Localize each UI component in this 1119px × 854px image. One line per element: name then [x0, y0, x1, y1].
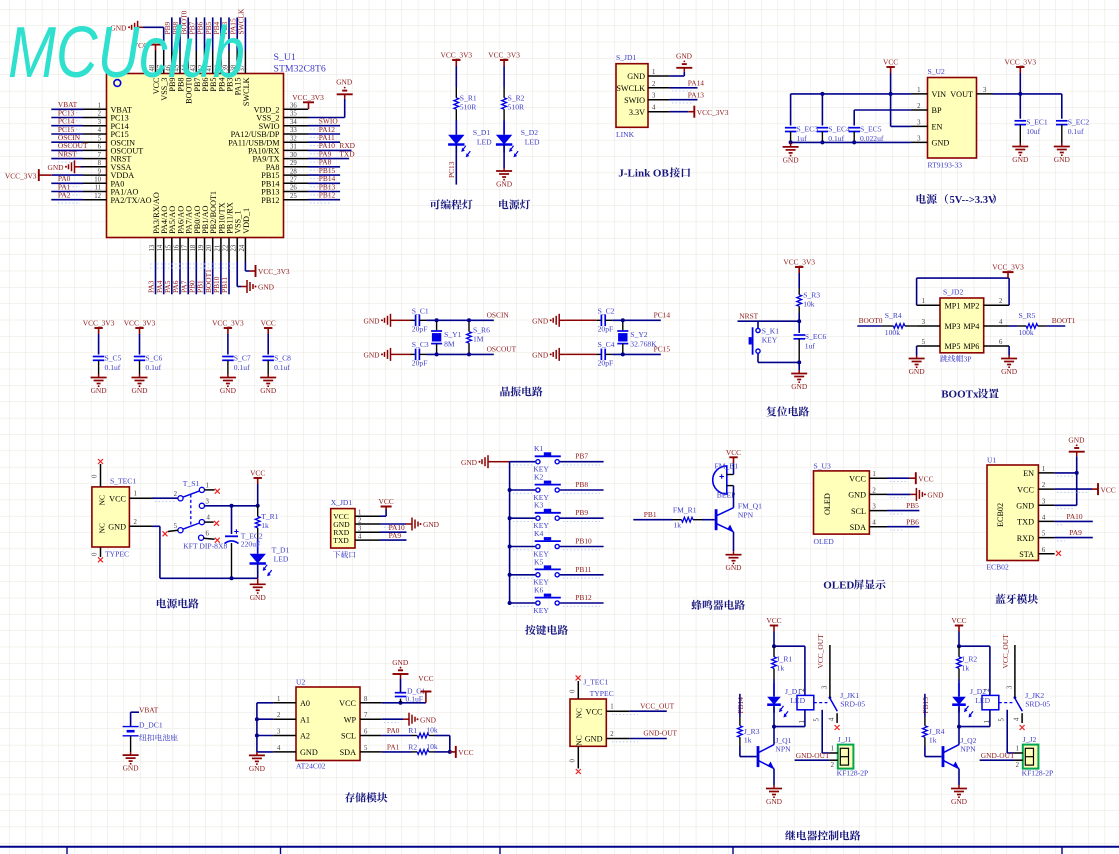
svg-text:S_C1: S_C1	[412, 307, 429, 316]
svg-text:29: 29	[290, 160, 297, 167]
ground at pin35 VSS_2	[308, 117, 345, 119]
wire net BOOT0	[187, 17, 189, 50]
ground below J_Q2	[958, 785, 960, 789]
crystal S_Y2 32.768K	[622, 320, 624, 331]
key K6 KEY	[536, 601, 540, 605]
pin 39 PB3 (top)	[228, 51, 230, 74]
junction VCC/pin3	[256, 504, 260, 508]
resistor J_R3 1k	[739, 717, 741, 726]
capacitor D_C1 0.1uF	[400, 699, 402, 703]
pin 1 A0 of U2	[273, 702, 296, 704]
wire net PA6	[179, 262, 181, 295]
pin 30 PA9/TX (right)	[284, 158, 309, 160]
wire rail to K6	[510, 602, 536, 604]
relay J_JK1 SRD-05 coil	[797, 695, 814, 709]
svg-text:GND: GND	[1068, 436, 1085, 445]
pin 3 GND of U1	[1038, 504, 1054, 506]
svg-text:1: 1	[358, 510, 361, 517]
wire net OSCOUT	[51, 149, 83, 151]
svg-text:TXD: TXD	[333, 536, 349, 545]
wire net PA9	[308, 158, 349, 160]
svg-text:S_R3: S_R3	[803, 290, 820, 299]
junction rail K6	[508, 601, 512, 605]
svg-text:35: 35	[290, 111, 297, 118]
svg-text:A2: A2	[300, 732, 310, 741]
pin 3 SWIO of S_JD1	[648, 99, 669, 101]
svg-text:VCC: VCC	[261, 319, 276, 328]
svg-text:SDA: SDA	[340, 748, 356, 757]
svg-text:27: 27	[290, 177, 297, 184]
wire down to S_R3	[798, 273, 800, 288]
svg-text:VCC_3V3: VCC_3V3	[1004, 58, 1036, 67]
pin 1 MP1 of S_JD2	[917, 304, 940, 306]
svg-text:KEY: KEY	[762, 336, 778, 345]
svg-text:3: 3	[922, 319, 926, 326]
svg-text:21: 21	[214, 245, 221, 252]
svg-text:GND: GND	[909, 367, 926, 376]
svg-text:PA2/TX/AO: PA2/TX/AO	[111, 196, 152, 205]
pin 4 SDA of S_U3	[869, 526, 887, 528]
capacitor S_EC3 1uf	[785, 127, 797, 129]
svg-text:1: 1	[922, 298, 925, 305]
wire net PB1	[633, 519, 672, 521]
wire SCL / net PA0	[382, 735, 412, 737]
pin 1 VCC of X_JD1	[355, 515, 380, 517]
pin 33 PA12/USB/DP (right)	[284, 133, 309, 135]
svg-text:5: 5	[364, 745, 368, 752]
power VCC above S_C8	[267, 328, 269, 334]
svg-text:1: 1	[206, 482, 209, 489]
key K3 KEY	[536, 516, 540, 520]
svg-text:4: 4	[872, 520, 876, 527]
ground below left rail	[256, 752, 258, 756]
ground below J_Q1	[773, 785, 775, 789]
svg-text:VCC_3V3: VCC_3V3	[5, 171, 37, 180]
svg-text:2: 2	[358, 517, 362, 524]
svg-text:17: 17	[182, 244, 189, 251]
wire VCC down to VIN rail	[890, 73, 892, 94]
svg-text:4: 4	[207, 515, 211, 522]
connector J_TEC1 TYPEC body	[570, 699, 606, 746]
svg-text:0: 0	[92, 552, 99, 556]
junction node NRST	[797, 319, 801, 323]
wire coil pin1 to node	[804, 710, 806, 727]
ground below S_C5	[98, 374, 100, 378]
svg-text:GND: GND	[108, 523, 126, 532]
svg-text:J_R2: J_R2	[962, 654, 978, 663]
sheet bottom border	[0, 846, 1119, 848]
LED J_D1	[773, 679, 775, 696]
relay pin4	[836, 713, 838, 723]
wire net PB9	[171, 17, 173, 50]
svg-text:U1: U1	[987, 455, 996, 464]
relay J_JK2 contact pin3	[1014, 645, 1016, 697]
svg-text:SWCLK: SWCLK	[616, 84, 645, 93]
svg-text:GND: GND	[927, 491, 944, 500]
wire FM_R1 to base	[702, 519, 715, 521]
pin 8 VCC of U2	[360, 702, 382, 704]
svg-text:FM_R1: FM_R1	[673, 506, 697, 515]
svg-text:20pF: 20pF	[412, 324, 428, 333]
pin 3 VOUT of S_U2	[977, 93, 994, 95]
svg-text:28: 28	[290, 168, 297, 175]
svg-text:OLED: OLED	[823, 493, 832, 515]
svg-text:GND: GND	[725, 563, 742, 572]
pin 3 EN of S_U2	[911, 125, 928, 127]
wire BP to S_EC5	[854, 109, 911, 111]
wire S_R3 to node	[798, 313, 800, 321]
svg-text:2: 2	[277, 712, 281, 719]
svg-text:LED: LED	[477, 137, 492, 146]
pin 29 PA8 (right)	[284, 166, 309, 168]
resistor R2 10k	[412, 751, 418, 753]
svg-text:1: 1	[134, 491, 137, 498]
svg-text:SRD-05: SRD-05	[1025, 699, 1050, 708]
no-ERC bottom	[98, 557, 103, 562]
svg-text:PA9: PA9	[1069, 528, 1082, 537]
svg-text:VCC_3V3: VCC_3V3	[83, 319, 115, 328]
wire net PA2	[51, 199, 83, 201]
svg-text:PB8: PB8	[575, 480, 588, 489]
svg-text:7: 7	[364, 712, 368, 719]
svg-text:1: 1	[984, 720, 991, 723]
pin 16 PA6/AO (bottom)	[179, 238, 181, 262]
display S_U3 OLED body	[814, 471, 870, 534]
resistor S_R2 510R	[503, 87, 505, 98]
wire net PC13	[51, 117, 83, 119]
svg-text:2: 2	[1016, 762, 1020, 769]
terminal J_J2 KF128-2P body	[1023, 745, 1039, 769]
pin 48 VCC (top)	[155, 51, 157, 74]
svg-text:PB6: PB6	[906, 517, 919, 526]
junction dots gnd rail	[789, 140, 793, 144]
wire bottom PC15	[612, 353, 661, 355]
capacitor S_EC5 0.022uf	[849, 127, 861, 129]
svg-text:R1: R1	[408, 726, 417, 735]
svg-text:KFT DIP-8X8: KFT DIP-8X8	[183, 542, 227, 551]
svg-text:5: 5	[922, 339, 926, 346]
svg-text:26: 26	[290, 185, 297, 192]
svg-text:3P: 3P	[964, 355, 972, 364]
svg-text:GND: GND	[258, 283, 275, 292]
svg-text:3: 3	[277, 729, 281, 736]
svg-text:4: 4	[652, 105, 656, 112]
ground below S_EC2	[1061, 143, 1063, 147]
power VCC right of D_C1	[425, 692, 427, 703]
wire K6 to PB12	[560, 602, 604, 604]
ground below S_C8	[267, 374, 269, 378]
wire LED to collector node	[773, 707, 775, 727]
svg-text:OSCOUT: OSCOUT	[487, 344, 517, 353]
svg-text:BP: BP	[932, 106, 942, 115]
pin 2 GND of S_U3	[869, 493, 887, 495]
svg-text:4: 4	[999, 319, 1003, 326]
wire rail to K4	[510, 546, 536, 548]
wire GND pin to rail	[152, 525, 160, 527]
wire net PA10	[308, 149, 352, 151]
transistor J_Q2 NPN	[942, 746, 945, 767]
wire net PB13	[308, 191, 340, 193]
svg-text:0: 0	[92, 474, 99, 478]
pin 13 PA3/RX/AO (bottom)	[155, 238, 157, 262]
pin 19 PB1/AO (bottom)	[204, 238, 206, 262]
pin 5 RXD of U1	[1038, 537, 1054, 539]
svg-text:PC14: PC14	[654, 310, 671, 319]
svg-text:KF128-2P: KF128-2P	[1022, 769, 1054, 778]
wire pin3 to VCC node	[205, 505, 258, 507]
connector S_JD1 J-Link body	[616, 64, 648, 128]
svg-text:GND: GND	[392, 658, 409, 667]
svg-text:S_Y2: S_Y2	[630, 330, 648, 339]
svg-text:TXD: TXD	[1017, 518, 1034, 527]
svg-text:2: 2	[831, 762, 835, 769]
pin 2 BP of S_U2	[911, 109, 928, 111]
svg-text:5: 5	[174, 523, 178, 530]
power VCC_3V3 above S_C5	[98, 328, 100, 334]
wire PB14 down	[739, 694, 741, 717]
svg-text:4: 4	[829, 717, 836, 721]
ground above U1	[1076, 452, 1078, 457]
jumper S_JD2 body	[940, 298, 984, 353]
svg-text:LINK: LINK	[616, 130, 635, 139]
pin 5 OSCIN (left)	[83, 141, 107, 143]
svg-text:GND: GND	[423, 520, 440, 529]
svg-text:BOOTx: BOOTx	[941, 389, 979, 401]
svg-text:VDD_1: VDD_1	[242, 208, 251, 234]
svg-text:6: 6	[1042, 547, 1046, 554]
svg-text:S_EC3: S_EC3	[797, 125, 819, 134]
svg-text:S_C6: S_C6	[145, 354, 162, 363]
pin 43 PB7 (top)	[195, 51, 197, 74]
svg-text:GND: GND	[461, 458, 478, 467]
ground below left rail	[790, 142, 792, 147]
wire top OSCIN	[427, 319, 494, 321]
value 下载口	[333, 551, 340, 558]
power VCC above T_R1	[257, 478, 259, 484]
border tick	[732, 847, 734, 854]
wire VCC	[1055, 488, 1092, 490]
wire rail to K5	[510, 574, 536, 576]
pin 7 WP of U2	[360, 718, 382, 720]
wire SDA / net PA1	[382, 751, 412, 753]
svg-text:3: 3	[206, 498, 210, 505]
svg-text:T_S1: T_S1	[183, 479, 200, 488]
capacitor S_EC4 0.1uf	[821, 94, 823, 126]
wire left rail	[257, 702, 273, 704]
junction EC4 top	[820, 92, 824, 96]
wire net VCC_OUT	[630, 710, 667, 712]
svg-text:GND-OUT: GND-OUT	[796, 751, 830, 760]
pin 21 PB10/TX (bottom)	[220, 238, 222, 262]
svg-text:GND: GND	[791, 382, 808, 391]
svg-text:GND: GND	[420, 715, 437, 724]
wire BOOT1	[1046, 325, 1065, 327]
power VCC_3V3 above S_R2	[503, 60, 505, 66]
relay pin5 wire	[1006, 710, 1008, 753]
wire emitter to ground	[958, 769, 960, 785]
svg-text:MP6: MP6	[963, 342, 979, 351]
pin 4 PC15 (left)	[83, 133, 107, 135]
svg-text:SRD-05: SRD-05	[840, 699, 865, 708]
pin 14 PA4/AO (bottom)	[163, 238, 165, 262]
svg-text:2: 2	[134, 519, 138, 526]
wire VCC_3V3 to S_R1	[455, 66, 457, 87]
svg-text:10k: 10k	[426, 742, 438, 751]
svg-text:J_D1: J_D1	[785, 687, 801, 696]
wire emitter to ground	[773, 769, 775, 785]
junction VCC pullup	[448, 750, 452, 754]
ground below S_C6	[139, 374, 141, 378]
svg-text:510R: 510R	[460, 102, 477, 111]
svg-text:NC: NC	[98, 495, 107, 506]
wire VCC_3V3 to S_R2	[503, 66, 505, 87]
svg-text:TYPEC: TYPEC	[590, 689, 614, 698]
wire net PB0	[195, 262, 197, 295]
ground below reset	[798, 362, 800, 370]
wire emitter to ground	[733, 532, 735, 552]
svg-text:S_EC6: S_EC6	[805, 332, 827, 341]
svg-text:30: 30	[290, 152, 297, 159]
svg-text:PB9: PB9	[575, 508, 588, 517]
svg-text:J_J1: J_J1	[838, 735, 852, 744]
svg-text:PA1: PA1	[387, 743, 400, 752]
wire VCC pin8	[382, 702, 426, 704]
wire VBAT	[130, 712, 132, 726]
svg-text:T_R1: T_R1	[261, 512, 279, 521]
svg-text:GND: GND	[1016, 502, 1034, 511]
svg-text:NRST: NRST	[58, 149, 77, 158]
svg-text:VCC_3V3: VCC_3V3	[697, 108, 729, 117]
power VCC relay J_Q2	[958, 626, 960, 632]
ground below S_C7	[227, 374, 229, 378]
svg-text:22: 22	[223, 244, 230, 251]
svg-text:VCC_3V3: VCC_3V3	[992, 262, 1024, 271]
svg-text:31: 31	[290, 144, 297, 151]
no-ERC on STA	[1056, 551, 1061, 556]
wire net PA10	[380, 531, 407, 533]
svg-text:6: 6	[206, 530, 210, 537]
pin 42 PB6 (top)	[204, 51, 206, 74]
pin 3 A2 of U2	[273, 735, 296, 737]
ground below pin6	[1008, 356, 1010, 359]
svg-text:ECB02: ECB02	[986, 563, 1009, 572]
svg-text:GND: GND	[766, 797, 783, 806]
svg-text:K1: K1	[534, 444, 543, 453]
junction VCC branch	[957, 644, 961, 648]
eeprom U2 AT24C02 body	[296, 687, 360, 761]
junction VCC/VIN	[889, 92, 893, 96]
svg-text:GND: GND	[496, 180, 513, 189]
svg-text:GND: GND	[336, 78, 353, 87]
border tick	[66, 847, 68, 854]
svg-text:KEY: KEY	[533, 606, 549, 615]
svg-text:GND: GND	[300, 748, 318, 757]
wire K4 to PB10	[560, 546, 604, 548]
svg-text:1: 1	[917, 87, 920, 94]
svg-text:VCC: VCC	[418, 674, 433, 683]
pin 44 BOOT0 (top)	[187, 51, 189, 74]
junction bottom rail	[797, 360, 801, 364]
resistor T_R1 1k	[257, 506, 259, 517]
wire net PB7	[195, 17, 197, 50]
pin 38 PA15 (top)	[236, 51, 238, 74]
pin 24 VDD_1 (bottom)	[244, 238, 246, 262]
wire K5 to PB11	[560, 574, 604, 576]
module U1 ECB02 body	[987, 465, 1038, 561]
svg-text:5: 5	[814, 718, 821, 722]
capacitor S_C8 0.1uf	[262, 356, 274, 358]
svg-text:NC: NC	[98, 523, 107, 534]
svg-text:3: 3	[358, 526, 362, 533]
svg-text:S_D2: S_D2	[521, 128, 539, 137]
power VCC at pin48	[150, 44, 161, 46]
svg-text:GND: GND	[783, 155, 800, 164]
resistor J_R2 1k	[958, 646, 960, 657]
svg-text:RT9193-33: RT9193-33	[928, 161, 963, 170]
wire net PB10	[220, 262, 222, 295]
svg-text:RXD: RXD	[1017, 534, 1034, 543]
wire pin4 to VCC_3V3	[669, 111, 688, 113]
svg-text:PB12: PB12	[319, 191, 336, 200]
wire VOUT rail	[993, 93, 1062, 95]
svg-text:GND: GND	[1012, 155, 1029, 164]
svg-text:NPN: NPN	[775, 745, 791, 754]
resistor S_R6 1M	[468, 320, 470, 331]
svg-text:3: 3	[1006, 685, 1013, 689]
relay link dashed	[814, 702, 828, 704]
svg-text:T_D1: T_D1	[272, 545, 290, 554]
svg-text:VCC_OUT: VCC_OUT	[1001, 634, 1010, 669]
section title 可编程灯	[430, 199, 440, 209]
svg-text:6: 6	[98, 144, 102, 151]
capacitor S_C2 20pF	[565, 319, 596, 321]
ground at pin8 VSSA	[81, 166, 84, 168]
svg-text:GND: GND	[676, 52, 693, 61]
no-ERC relay pin4	[835, 725, 840, 730]
pin 4 TXD of X_JD1	[355, 539, 380, 541]
svg-text:VCC_3V3: VCC_3V3	[124, 319, 156, 328]
ground at pin47 VSS_3	[163, 27, 165, 50]
svg-text:11: 11	[94, 185, 101, 192]
wire net PA1	[51, 191, 83, 193]
wire pin1 to VCC	[887, 477, 910, 479]
svg-text:34: 34	[290, 119, 297, 126]
pin 1 VCC of S_TEC1	[129, 497, 152, 499]
svg-text:S_EC4: S_EC4	[828, 125, 850, 134]
resistor S_R3 10k	[798, 288, 800, 295]
pin 32 PA11/USB/DM (right)	[284, 141, 309, 143]
resistor FM_R1 1k	[673, 519, 682, 521]
capacitor S_C7 0.1uf	[222, 356, 234, 358]
svg-text:1: 1	[831, 746, 834, 753]
svg-text:0.022uf: 0.022uf	[860, 134, 884, 143]
svg-text:PC13: PC13	[447, 161, 456, 178]
key K2 KEY	[536, 488, 540, 492]
pin 18 PB0/AO (bottom)	[195, 238, 197, 262]
svg-text:MCUclub: MCUclub	[8, 12, 245, 93]
pin 45 PB8 (top)	[179, 51, 181, 74]
svg-text:R2: R2	[408, 743, 417, 752]
svg-text:MP2: MP2	[963, 301, 979, 310]
wire EN/GND to ground	[1055, 472, 1077, 474]
svg-text:0.1uf: 0.1uf	[145, 363, 161, 372]
wire S_K1 to bottom rail	[757, 354, 759, 363]
svg-text:S_EC1: S_EC1	[1026, 118, 1048, 127]
power VCC_3V3 at pin9 VDDA	[38, 169, 40, 181]
wire to S_C8	[267, 334, 269, 355]
power VCC above X_JD1	[385, 507, 387, 510]
svg-text:VCC: VCC	[250, 469, 265, 478]
